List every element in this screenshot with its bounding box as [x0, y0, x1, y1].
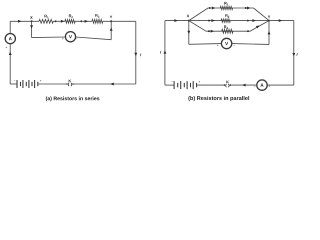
wire: (a) bottom wire battery to left corner [10, 83, 16, 85]
label I (b left) [160, 51, 161, 54]
label R3 [95, 14, 99, 18]
resistor R2 (b) [221, 19, 230, 22]
resistor R3 (b) [222, 29, 233, 33]
wire: (b) voltmeter branch left riser from X [188, 21, 190, 45]
label I (b right) [297, 53, 298, 56]
wire: (b) bottom branch falling diagonal from X [189, 21, 206, 32]
ammeter A (b) [257, 80, 267, 90]
wire: (a) bottom wire key to battery [38, 83, 66, 85]
wire: (a) R2 to R3 segment [75, 20, 92, 22]
resistor R1 (a) [39, 19, 53, 23]
arrow: (b) current arrow on left wire (upward) [163, 50, 166, 53]
junction dot middle branch right (b) [247, 20, 249, 22]
label: ammeter + terminal (b) [268, 85, 270, 87]
wire: (a) X to R1 [32, 20, 39, 22]
junction dot bottom branch left (b) [208, 30, 210, 32]
label: battery - terminal (b) [171, 81, 173, 83]
label: ammeter - terminal (b) [254, 85, 256, 87]
arrow: (b) current arrow after Y (rightward) [279, 19, 283, 22]
wire: (b) middle branch [189, 20, 269, 22]
arrow: (b) top branch left arrow (rightward) [212, 7, 216, 10]
arrow: (b) arrow on rising diagonal toward Y [256, 26, 260, 29]
junction dot top branch left (b) [209, 7, 211, 9]
wire: (a) voltmeter branch left riser from X [31, 21, 33, 37]
wire: (b) left vertical [164, 21, 166, 86]
arrow: (b) middle branch left arrow (rightward) [211, 19, 215, 22]
wire: (b) voltmeter branch right horizontal [232, 43, 269, 46]
arrow: (b) current arrow on right wire (downward) [292, 53, 295, 56]
plug key K (a) [66, 83, 74, 86]
arrow: (b) bottom branch left arrow (rightward) [211, 30, 215, 33]
wire: (b) bottom branch rising diagonal to Y [250, 21, 269, 32]
arrow: (b) top branch right arrow (rightward) [247, 7, 251, 10]
caption (a) [46, 96, 100, 101]
caption (b) [188, 96, 249, 101]
wire: (a) R1 to R2 segment [53, 20, 65, 22]
label K (b) [226, 81, 228, 84]
node X (b) [188, 20, 190, 22]
wire: (a) R3 to Y and to top-right corner [103, 20, 136, 22]
arrow: (a) arrow up into Y [110, 27, 113, 30]
wire: (b) voltmeter branch left horizontal [189, 43, 222, 46]
junction dot bottom branch right (b) [247, 30, 249, 32]
label X (b) [187, 15, 190, 18]
arrow: (a) current arrow on right wire (downward) [134, 53, 137, 56]
label X (a) [30, 16, 33, 19]
label K (a) [69, 80, 71, 83]
wire: (b) right vertical [293, 21, 295, 86]
wire: (b) bottom wire ammeter to key [231, 84, 257, 86]
arrow: (a) current arrow on top wire (rightward) [18, 20, 22, 23]
ammeter A (a) [5, 34, 15, 44]
label Y (b) [268, 16, 270, 19]
arrow: (a) current arrow on left wire (upward) [9, 52, 12, 55]
arrow: (b) arrow up into Y (b) [268, 31, 271, 34]
wire: (a) voltmeter branch right horizontal [76, 37, 112, 40]
wire: (b) top branch rising diagonal from X [189, 8, 208, 21]
node Y (a) [110, 20, 112, 22]
wire: (a) voltmeter branch right riser to Y [110, 21, 112, 39]
wire: (b) bottom wire right portion [267, 84, 294, 86]
resistor R3 (a) [92, 19, 103, 23]
label: battery - terminal (a) [14, 79, 16, 81]
junction dot top branch right (b) [245, 7, 247, 9]
label R1 [44, 15, 48, 18]
node X (a) [31, 20, 33, 22]
label R1 (b) [224, 2, 228, 5]
wire: (a) bottom wire right portion (corner to key) [74, 83, 136, 85]
label: voltmeter - terminal (a) [76, 37, 78, 39]
wire: (b) Y to top-right corner [269, 20, 294, 22]
label: battery + terminal (b) [199, 81, 201, 83]
wire: (a) top-left corner and top wire to X [10, 20, 31, 22]
node Y (b) [268, 20, 270, 22]
label: voltmeter + terminal (a) [62, 38, 64, 40]
junction dot after R2 (a) [80, 20, 82, 22]
wire: (a) right vertical [135, 21, 137, 84]
voltmeter V (a) [65, 32, 75, 42]
arrow: (a) arrow down into voltmeter branch [30, 25, 33, 28]
battery cells (b) [174, 81, 197, 89]
arrow: (a) current arrow before R2 (rightward) [61, 20, 65, 23]
resistor R2 (a) [65, 20, 75, 24]
label: voltmeter - terminal (b) [233, 44, 235, 46]
arrow: (a) current arrow on bottom wire (leftward) [110, 83, 114, 86]
plug key K (b) [224, 84, 232, 87]
arrow: (b) current arrow on bottom wire (leftward) [242, 84, 246, 87]
label: battery + terminal (a) [40, 80, 42, 82]
wire: (b) top-left corner to X [165, 20, 189, 22]
arrow: (b) middle branch right arrow (rightward) [252, 19, 256, 22]
arrow: (a) current arrow before R3 (rightward) [85, 20, 89, 23]
label R2 (b) [225, 14, 229, 17]
label I (a) [140, 53, 141, 56]
label: voltmeter + terminal (b) [217, 45, 219, 47]
resistor R1 (b) [220, 6, 233, 9]
wire: (b) bottom wire key to battery [197, 84, 223, 86]
wire: (b) voltmeter branch right riser to Y [268, 21, 270, 45]
label R2 [69, 15, 73, 18]
junction dot after R1 (a) [55, 20, 57, 22]
wire: (b) bottom branch plateau [206, 30, 250, 32]
label: ammeter + terminal (a) [6, 47, 8, 49]
wire: (b) top branch falling diagonal to Y [254, 8, 270, 21]
label Y (a) [110, 16, 112, 19]
voltmeter V (b) [221, 38, 231, 48]
wire: (a) voltmeter branch left horizontal [32, 36, 66, 39]
battery cells (a) [17, 80, 38, 88]
wire: (a) left vertical lower segment (ammeter to bottom corner) [9, 44, 11, 84]
arrow: (b) arrow down toward voltmeter [187, 31, 190, 34]
wire: (b) top branch plateau [208, 7, 254, 9]
arrow: (b) current arrow top-left (rightward) [174, 19, 178, 22]
label R3 (b) [224, 26, 228, 30]
wire: (b) bottom wire battery to left corner [165, 84, 174, 86]
wire: (a) left vertical upper segment (corner to ammeter) [9, 21, 11, 33]
junction dot middle branch left (b) [208, 20, 210, 22]
